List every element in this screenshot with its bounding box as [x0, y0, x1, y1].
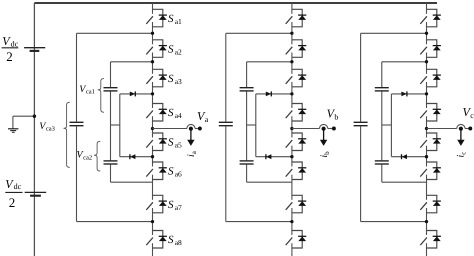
node n7-a junction dot: [151, 220, 154, 223]
wire outer branch lower + node n7-a connection: [77, 126, 153, 221]
wire output V_a: [153, 128, 187, 130]
wire clamp branch vertical (L2-a): [119, 94, 121, 157]
node output dot 1 (c): [459, 127, 463, 131]
transistor switch Sc3 (ideal switch + antiparallel diode): [420, 69, 441, 87]
wire phase-a leg vertical: [152, 3, 154, 256]
label Vdc/2 lower: [5, 177, 22, 210]
capacitor V_a1 (upper flying capacitor): [104, 88, 118, 91]
diode Db2 (clamp, cathode left): [266, 154, 272, 159]
transistor switch Sb6 (ideal switch + antiparallel diode): [286, 162, 307, 180]
output hop arc (a): [187, 124, 195, 128]
node n2-a junction dot: [151, 60, 154, 63]
wire midpoint link L1-L2 (c): [382, 124, 392, 126]
node n1-b junction dot: [290, 32, 293, 35]
label V_c: [463, 105, 474, 120]
wire inner chain middle section: [110, 92, 112, 161]
node n2-b junction dot: [290, 60, 293, 63]
transistor switch Sc7 (ideal switch + antiparallel diode): [420, 195, 441, 213]
transistor switch Sb5 (ideal switch + antiparallel diode): [286, 133, 307, 151]
wire arc to terminal dot (a): [195, 128, 198, 130]
node terminal dot 2 (c): [468, 127, 472, 131]
label i_c (rotated): [456, 152, 468, 158]
transistor switch Sa8 (ideal switch + antiparallel diode): [146, 231, 167, 249]
node output node-b junction dot: [290, 127, 293, 130]
wire node n2-a to inner capacitor chain: [111, 62, 153, 87]
transistor switch Sc4 (ideal switch + antiparallel diode): [420, 104, 441, 122]
wire clamp to node n5-b: [256, 156, 292, 158]
wire clamp to node n3-c: [391, 93, 426, 95]
wire midpoint link L1-L2 (b): [247, 124, 256, 126]
transistor switch Sa3 (ideal switch + antiparallel diode): [146, 69, 167, 87]
battery Vdc/2 upper (DC source): [24, 48, 45, 51]
svg-text:2: 2: [6, 49, 13, 64]
node output dot 1 (b): [322, 127, 326, 131]
node terminal dot 2 (b): [332, 127, 336, 131]
capacitor V_a3 (outer flying capacitor): [70, 122, 84, 125]
wire clamp branch vertical (L2-c): [390, 94, 392, 157]
output hop arc (b): [320, 124, 328, 128]
node n5-b junction dot: [290, 155, 293, 158]
wire inner chain middle section: [246, 92, 248, 161]
svg-text:a: a: [205, 115, 209, 124]
transistor switch Sa6 (ideal switch + antiparallel diode): [146, 162, 167, 180]
diode Dc1 (clamp, cathode right): [401, 91, 407, 96]
node n7-c junction dot: [425, 220, 428, 223]
capacitor V_c2 (lower flying capacitor): [375, 161, 389, 164]
node n3-c junction dot: [425, 92, 428, 95]
transistor switch Sa5 (ideal switch + antiparallel diode): [146, 133, 167, 151]
capacitor V_b1 (upper flying capacitor): [240, 88, 254, 91]
node output dot 1 (a): [189, 127, 193, 131]
transistor switch Sb4 (ideal switch + antiparallel diode): [286, 104, 307, 122]
wire clamp branch vertical (L2-b): [255, 94, 257, 157]
node n2-c junction dot: [425, 60, 428, 63]
diode Db1 (clamp, cathode right): [266, 91, 272, 96]
capacitor V_b2 (lower flying capacitor): [240, 161, 254, 164]
transistor switch Sb3 (ideal switch + antiparallel diode): [286, 69, 307, 87]
transistor switch Sb2 (ideal switch + antiparallel diode): [286, 40, 307, 58]
wire clamp to node n5-c: [391, 156, 426, 158]
wire arc to terminal dot (b): [328, 128, 333, 130]
svg-text:b: b: [334, 113, 338, 122]
battery Vdc/2 lower (DC source): [25, 192, 47, 195]
node n1-c junction dot: [425, 32, 428, 35]
node output node-c junction dot: [425, 127, 428, 130]
transistor switch Sa7 (ideal switch + antiparallel diode): [146, 195, 167, 213]
wire node n2-c to inner capacitor chain: [382, 62, 427, 87]
node midpoint junction on DC bus: [33, 115, 36, 118]
transistor switch Sb7 (ideal switch + antiparallel diode): [286, 195, 307, 213]
node n3-b junction dot: [290, 92, 293, 95]
current arrow i_b: [320, 130, 327, 146]
svg-text:2: 2: [9, 195, 16, 210]
transistor switch Sc8 (ideal switch + antiparallel diode): [420, 231, 441, 249]
wire inner chain bottom + node n6-b connection: [247, 165, 292, 183]
svg-text:dc: dc: [14, 182, 22, 191]
wire node n1-b to outer capacitor branch: [226, 33, 292, 121]
transistor switch Sc1 (ideal switch + antiparallel diode): [420, 9, 441, 27]
diode Dc2 (clamp, cathode left): [402, 154, 408, 159]
transistor switch Sa1 (ideal switch + antiparallel diode): [146, 9, 167, 27]
wire phase-c leg vertical: [426, 3, 428, 256]
node n5-a junction dot: [151, 155, 154, 158]
ground symbol: [8, 129, 18, 133]
label V_ca1 with brace: [79, 79, 104, 113]
svg-text:ca3: ca3: [46, 125, 55, 132]
capacitor V_a2 (lower flying capacitor): [104, 161, 118, 164]
wire inner chain bottom + node n6-c connection: [382, 165, 427, 183]
transistor switch Sc5 (ideal switch + antiparallel diode): [420, 133, 441, 151]
label V_ca2 with brace: [77, 141, 101, 171]
current arrow i_a: [187, 130, 194, 146]
label V_a: [197, 109, 209, 124]
capacitor V_b3 (outer flying capacitor): [219, 122, 233, 125]
svg-text:dc: dc: [11, 39, 19, 48]
transistor switch Sc2 (ideal switch + antiparallel diode): [420, 40, 441, 58]
capacitor V_c1 (upper flying capacitor): [375, 88, 389, 91]
node n5-c junction dot: [425, 155, 428, 158]
label i_a (rotated): [186, 150, 198, 157]
wire inner chain bottom + node n6-a connection: [111, 165, 153, 183]
wire output V_c: [427, 128, 457, 130]
wire clamp to node n5-a: [120, 156, 153, 158]
wire ground stub: [13, 116, 35, 128]
transistor switch Sc6 (ideal switch + antiparallel diode): [420, 162, 441, 180]
capacitor V_c3 (outer flying capacitor): [354, 122, 368, 125]
diode Da2 (clamp, cathode left): [130, 154, 136, 159]
label V_ca3 with brace: [39, 102, 70, 167]
wire phase-b leg vertical: [291, 3, 293, 256]
wire node n1-c to outer capacitor branch: [361, 33, 427, 121]
wire clamp to node n3-a: [120, 93, 153, 95]
wire arc to terminal dot (c): [465, 128, 469, 130]
node terminal dot 2 (a): [198, 127, 202, 131]
label Vdc/2 upper: [2, 34, 19, 64]
wire output V_b: [292, 128, 320, 130]
diode Da1 (clamp, cathode right): [130, 91, 136, 96]
transistor switch Sa4 (ideal switch + antiparallel diode): [146, 104, 167, 122]
current arrow i_c: [457, 130, 464, 146]
transistor switch Sa2 (ideal switch + antiparallel diode): [146, 40, 167, 58]
transistor switch Sb1 (ideal switch + antiparallel diode): [286, 9, 307, 27]
wire node n1-a to outer capacitor branch: [77, 33, 153, 121]
wire left DC bus vertical: [33, 3, 35, 256]
wire clamp to node n3-b: [256, 93, 292, 95]
wire node n2-b to inner capacitor chain: [247, 62, 292, 87]
svg-text:c: c: [470, 111, 474, 120]
wire outer branch lower + node n7-c connection: [361, 126, 427, 221]
wire midpoint link L1-L2 (a): [111, 124, 120, 126]
label V_b: [327, 107, 339, 122]
wire inner chain middle section: [381, 92, 383, 161]
node n7-b junction dot: [290, 220, 293, 223]
wire top DC bus: [34, 2, 437, 4]
output hop arc (c): [457, 124, 465, 128]
node n1-a junction dot: [151, 32, 154, 35]
svg-text:ca2: ca2: [83, 154, 92, 161]
svg-text:ca1: ca1: [86, 89, 95, 96]
wire outer branch lower + node n7-b connection: [226, 126, 292, 221]
node n3-a junction dot: [151, 92, 154, 95]
transistor switch Sb8 (ideal switch + antiparallel diode): [286, 231, 307, 249]
label i_b (rotated): [319, 151, 331, 158]
node output node-a junction dot: [151, 127, 154, 130]
